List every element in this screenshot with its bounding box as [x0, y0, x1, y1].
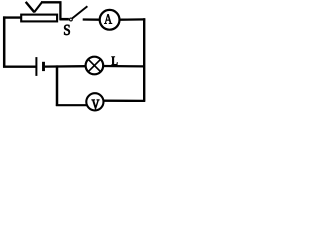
label L	[112, 57, 118, 66]
resistor (rheostat) body	[21, 15, 57, 22]
wire: left vertical from rheostat down to battery row	[3, 16, 6, 67]
battery positive plate (long)	[35, 57, 37, 76]
lamp L cross stroke 1	[88, 59, 100, 71]
label S	[64, 25, 70, 35]
wire: voltmeter left lead	[56, 104, 87, 106]
switch S blade (open)	[72, 6, 87, 18]
battery negative plate (short)	[42, 62, 45, 71]
rheostat slider arrow shaft	[34, 2, 42, 13]
wire: switch fixed lead to ammeter	[83, 18, 100, 21]
wire: battery row left horizontal	[3, 65, 36, 67]
switch S pivot	[70, 18, 73, 21]
voltmeter letter V	[92, 100, 99, 109]
ammeter letter A	[104, 14, 112, 23]
wire: voltmeter right lead	[103, 100, 145, 103]
wire: switch left lead	[60, 18, 69, 21]
ammeter A1 circle	[100, 10, 120, 30]
rheostat slider arrow left wing	[26, 2, 35, 12]
wire: battery to lamp	[45, 65, 87, 68]
wire: top-left horizontal into rheostat left terminal	[3, 16, 21, 18]
voltmeter V1 circle	[86, 93, 103, 110]
wire: lamp right lead	[103, 65, 145, 68]
wire: right vertical	[143, 18, 145, 102]
wire: top horizontal from slider	[41, 1, 62, 3]
lamp L circle	[86, 57, 104, 75]
wire: short vertical down to switch	[59, 2, 61, 20]
node: junction to voltmeter branch, vertical drop	[56, 65, 59, 106]
wire: ammeter right lead to top-right corner	[120, 18, 146, 21]
lamp L cross stroke 2	[88, 59, 100, 71]
